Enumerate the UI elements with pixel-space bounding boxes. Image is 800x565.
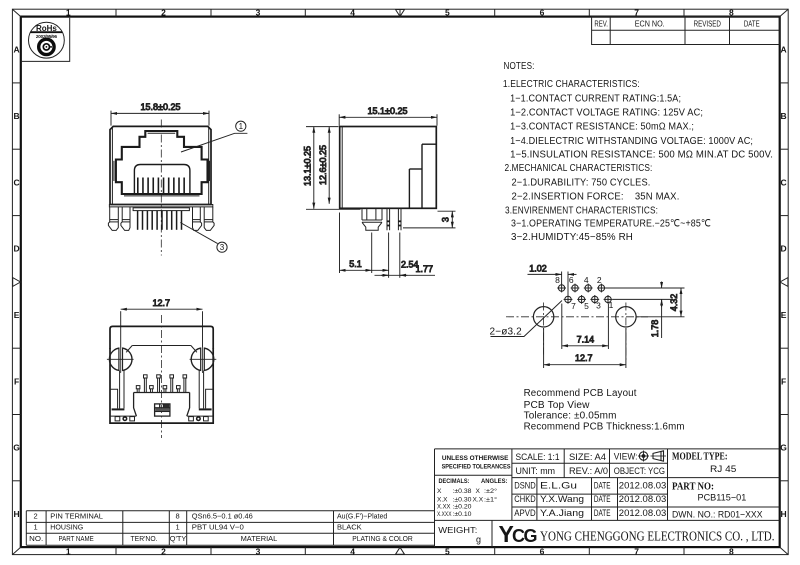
svg-text:2−2.INSERTION FORCE: 35N: 2−2.INSERTION FORCE: 35N MAX. <box>512 191 680 202</box>
svg-text:WEIGHT:: WEIGHT: <box>438 525 477 535</box>
svg-text:PBT UL94 V−0: PBT UL94 V−0 <box>192 523 244 532</box>
svg-text:1−3.CONTACT RESISTANCE: 50mΩ: 1−3.CONTACT RESISTANCE: 50mΩ MAX.; <box>510 122 694 133</box>
svg-text:2: 2 <box>597 275 602 285</box>
svg-text::±2°: :±2° <box>484 487 497 495</box>
parts table header <box>29 534 413 543</box>
svg-text:1: 1 <box>609 300 614 310</box>
svg-text:ECN NO.: ECN NO. <box>635 19 665 28</box>
svg-text:4: 4 <box>350 546 355 556</box>
front view left outer shield leg <box>108 207 118 231</box>
svg-text:Au(G.F')−Plated: Au(G.F')−Plated <box>337 512 387 521</box>
svg-text:X.X: X.X <box>473 497 484 504</box>
svg-text:YONG CHENGGONG ELECTRONICS CO.: YONG CHENGGONG ELECTRONICS CO. , LTD. <box>540 529 775 544</box>
svg-text::±0.20: :±0.20 <box>453 504 472 511</box>
svg-text:7: 7 <box>634 546 639 556</box>
svg-text:3: 3 <box>441 217 451 222</box>
side view body <box>340 127 437 209</box>
svg-text:7: 7 <box>571 301 576 311</box>
svg-text:HOUSING: HOUSING <box>50 523 83 532</box>
side view dimension 15.1±0.25 <box>339 106 437 126</box>
svg-text:12.7: 12.7 <box>575 353 593 363</box>
side view solder pin 2 <box>398 208 401 230</box>
bottom view left mounting post <box>109 347 132 371</box>
svg-text:3−2.HUMIDTY:45−85% RH: 3−2.HUMIDTY:45−85% RH <box>511 232 633 243</box>
svg-text:E.L.Gu: E.L.Gu <box>540 481 577 492</box>
svg-text::±1°: :±1° <box>484 496 497 504</box>
svg-text:4.32: 4.32 <box>669 294 679 312</box>
pcb layout dimension 12.7 <box>544 328 626 368</box>
svg-text::±0.38: :±0.38 <box>453 488 472 495</box>
svg-text:2.MECHANICAL CHARACTERISTICS:: 2.MECHANICAL CHARACTERISTICS: <box>505 163 653 174</box>
pcb layout pin numbers <box>555 275 614 311</box>
title block row2 text <box>516 466 666 477</box>
svg-text:DATE: DATE <box>594 494 611 505</box>
svg-text:X.XXX: X.XXX <box>437 511 452 518</box>
svg-text:2012.08.03: 2012.08.03 <box>619 481 667 492</box>
svg-text::±0.10: :±0.10 <box>453 511 472 518</box>
svg-text:4: 4 <box>350 8 355 18</box>
front view contact tongue insert <box>134 165 190 195</box>
svg-text:DATE: DATE <box>594 481 611 492</box>
pcb layout pin holes top row <box>557 284 606 293</box>
zone letters left <box>13 45 20 519</box>
svg-text:E: E <box>781 310 787 320</box>
pcb layout horizontal centerline <box>506 316 648 318</box>
bottom view left leg strip <box>110 371 136 417</box>
zone tick marks right band <box>780 83 789 481</box>
svg-text:G: G <box>780 443 787 453</box>
svg-text:F: F <box>781 376 786 386</box>
svg-text:5: 5 <box>445 546 450 556</box>
svg-text:7.14: 7.14 <box>577 335 595 345</box>
svg-text:DATE: DATE <box>744 19 760 28</box>
front view right inner shield leg <box>193 207 202 231</box>
bottom view pin row tall <box>144 375 187 393</box>
svg-text:A: A <box>14 45 20 55</box>
svg-text:C: C <box>14 177 20 187</box>
svg-text:ANGLES:: ANGLES: <box>481 478 508 485</box>
svg-text:NOTES:: NOTES: <box>504 61 535 72</box>
svg-text:1: 1 <box>66 546 71 556</box>
front view contact comb teeth <box>138 178 184 194</box>
svg-text:6: 6 <box>540 8 545 18</box>
balloon 3 <box>180 223 227 253</box>
svg-text:3: 3 <box>596 300 601 310</box>
title block sign rows <box>514 481 666 519</box>
svg-text:2012.08.03: 2012.08.03 <box>619 508 667 519</box>
front view shield body <box>109 126 212 206</box>
svg-text:13.1±0.25: 13.1±0.25 <box>303 146 313 186</box>
svg-text:15.8±0.25: 15.8±0.25 <box>141 102 181 112</box>
svg-text:DSND: DSND <box>514 481 536 492</box>
title block model cells <box>672 451 763 520</box>
svg-text:Q'TY: Q'TY <box>170 534 187 543</box>
svg-text:2: 2 <box>161 8 166 18</box>
svg-text:A: A <box>781 45 787 55</box>
svg-text:PLATING & COLOR: PLATING & COLOR <box>352 534 413 543</box>
svg-text:B: B <box>14 111 20 121</box>
side view dimension 1.77 <box>375 233 436 278</box>
svg-text:SCALE: 1:1: SCALE: 1:1 <box>516 452 560 463</box>
svg-text:X.XX: X.XX <box>437 504 451 511</box>
svg-text:1−4.DIELECTRIC WITHSTANDING: 1−4.DIELECTRIC WITHSTANDING VOLTAGE: 100… <box>510 136 753 147</box>
svg-text:APVD: APVD <box>514 508 536 519</box>
svg-text:8: 8 <box>176 512 180 521</box>
svg-text:15.1±0.25: 15.1±0.25 <box>368 106 408 116</box>
svg-text:G: G <box>13 443 20 453</box>
zone tick marks top band <box>116 9 684 16</box>
YCG logo <box>499 521 537 547</box>
pcb layout dimension 4.32 <box>605 288 685 317</box>
bottom view right pads <box>189 416 209 421</box>
svg-text:5.1: 5.1 <box>349 259 362 269</box>
svg-text:5: 5 <box>445 8 450 18</box>
svg-text:PART NAME: PART NAME <box>59 534 94 543</box>
bottom view centerline <box>161 315 163 438</box>
svg-text:PCB115−01: PCB115−01 <box>698 493 747 504</box>
svg-text:Y.X.Wang: Y.X.Wang <box>540 494 584 505</box>
parts table row 2 <box>34 512 388 521</box>
tolerance box text <box>439 455 512 485</box>
balloon 1 <box>181 121 247 152</box>
front view contact pins <box>138 211 182 230</box>
title block grid <box>435 449 780 547</box>
svg-text:3−1.OPERATING TEMPERATURE.−25: 3−1.OPERATING TEMPERATURE.−25℃~+85℃ <box>511 219 711 230</box>
svg-text:D: D <box>781 244 787 254</box>
side view rear step features <box>409 144 436 208</box>
notes text block <box>503 61 773 243</box>
bottom view latch window <box>155 404 170 416</box>
pcb layout pin holes bottom row <box>564 295 613 304</box>
revision table <box>592 17 780 45</box>
svg-text:3: 3 <box>256 8 261 18</box>
svg-text:DWN. NO.: RD01−XXX: DWN. NO.: RD01−XXX <box>672 510 763 521</box>
svg-text:OBJECT: YCG: OBJECT: YCG <box>614 466 665 477</box>
bottom view dimension 12.7 <box>121 298 203 347</box>
svg-text:1.02: 1.02 <box>529 264 547 274</box>
front view dimension 15.8±0.25 <box>111 102 209 125</box>
svg-text:8: 8 <box>729 546 734 556</box>
svg-text:D: D <box>14 244 20 254</box>
side view dimension 12.6±0.25 <box>306 127 361 210</box>
svg-text:UNIT: mm: UNIT: mm <box>516 466 556 477</box>
svg-text:X: X <box>437 488 442 495</box>
zone tick marks bottom band <box>116 547 684 555</box>
pcb layout note text <box>524 388 685 433</box>
side view dimension 5.1 <box>340 213 372 274</box>
bottom view body outline <box>110 326 213 423</box>
svg-text:1: 1 <box>34 523 38 532</box>
svg-text:VIEW:: VIEW: <box>614 451 638 462</box>
svg-text:SPECIFIED TOLERANCES: SPECIFIED TOLERANCES <box>442 464 512 471</box>
svg-text:REV.: REV. <box>594 19 608 28</box>
svg-text:2−1.DURABILITY: 750 CYCLES.: 2−1.DURABILITY: 750 CYCLES. <box>512 178 651 189</box>
svg-text:8: 8 <box>555 275 560 285</box>
svg-text:2: 2 <box>161 546 166 556</box>
pcb layout mounting hole right <box>616 303 636 361</box>
svg-text:2−ø3.2: 2−ø3.2 <box>490 326 523 337</box>
svg-text::±0.30: :±0.30 <box>453 497 472 504</box>
RoHS emblem box <box>21 18 70 62</box>
zone tick marks left band <box>12 83 20 481</box>
bottom view right leg strip <box>187 371 213 417</box>
svg-text:RJ 45: RJ 45 <box>710 464 736 475</box>
svg-text:12.7: 12.7 <box>153 298 171 308</box>
svg-text:6: 6 <box>540 546 545 556</box>
svg-text:6: 6 <box>569 275 574 285</box>
pcb layout mounting hole left <box>533 303 553 355</box>
pcb layout label 2-ø3.2 <box>490 301 563 338</box>
bottom view center block <box>134 393 190 417</box>
company name <box>540 529 775 544</box>
svg-text:1: 1 <box>66 8 71 18</box>
svg-text:E: E <box>14 310 20 320</box>
svg-text:B: B <box>781 111 787 121</box>
bottom view right mounting post <box>191 347 214 371</box>
svg-text:1−2.CONTACT VOLTAGE RATING:: 1−2.CONTACT VOLTAGE RATING: 125V AC; <box>510 108 703 119</box>
svg-text:1.78: 1.78 <box>650 320 660 338</box>
zone numbers top <box>66 8 734 18</box>
svg-text:Recommend PCB Thickness:1.6m: Recommend PCB Thickness:1.6mm <box>524 422 685 433</box>
bottom view inner shelf line <box>126 346 197 353</box>
svg-text:g: g <box>476 534 481 544</box>
svg-text:REVISED: REVISED <box>694 19 721 28</box>
parts table grid <box>26 511 434 545</box>
svg-text:C: C <box>781 177 787 187</box>
svg-text:BLACK: BLACK <box>337 523 362 532</box>
svg-text:X.X: X.X <box>437 497 448 504</box>
svg-text:3: 3 <box>256 546 261 556</box>
svg-text:H: H <box>781 509 787 519</box>
svg-text:1: 1 <box>239 122 244 131</box>
svg-text:H: H <box>14 509 20 519</box>
svg-text:PART NO:: PART NO: <box>672 481 714 492</box>
side view dimension 13.1±0.25 <box>303 127 339 209</box>
svg-text:Recommend PCB Layout: Recommend PCB Layout <box>524 388 637 399</box>
svg-text:Y.A.Jiang: Y.A.Jiang <box>540 508 584 519</box>
svg-text:MATERIAL: MATERIAL <box>241 534 278 543</box>
svg-text:3.ENVIRENMENT CHARACTERISTICS: 3.ENVIRENMENT CHARACTERISTICS: <box>505 206 658 217</box>
side view solder pin 1 <box>387 208 390 230</box>
svg-text:2012.08.03: 2012.08.03 <box>619 494 667 505</box>
svg-text:12.6±0.25: 12.6±0.25 <box>318 145 328 185</box>
front view centerline <box>160 120 162 256</box>
svg-text:PIN TERMINAL: PIN TERMINAL <box>50 512 103 521</box>
svg-text:1−1.CONTACT CURRENT RATING:1: 1−1.CONTACT CURRENT RATING:1.5A; <box>510 93 681 104</box>
first angle projection symbol <box>638 451 649 462</box>
svg-text:DATE: DATE <box>594 508 611 519</box>
svg-text:4: 4 <box>584 275 589 285</box>
svg-text:2: 2 <box>34 512 38 521</box>
svg-text:3: 3 <box>220 243 225 252</box>
svg-text:CG: CG <box>512 526 536 546</box>
side view dimension 2.54 <box>372 233 419 278</box>
bottom view pin row short <box>136 386 180 393</box>
svg-text:Tolerance: ±0.05mm: Tolerance: ±0.05mm <box>524 411 617 422</box>
svg-text:CHKD: CHKD <box>514 494 536 505</box>
front view pin comb bar <box>133 208 189 211</box>
bottom view post centermarks <box>107 347 216 373</box>
svg-text:1−5.INSULATION RESISTANCE: 5: 1−5.INSULATION RESISTANCE: 500 MΩ MIN.AT… <box>510 150 773 161</box>
front view RJ45 opening profile <box>114 131 210 196</box>
zone letters right <box>780 45 787 519</box>
bottom view left pads <box>115 416 134 421</box>
front view left inner shield leg <box>121 207 130 231</box>
pcb layout dimension 7.14 <box>562 304 609 350</box>
svg-text:F: F <box>14 376 19 386</box>
svg-text:UNLESS OTHERWISE: UNLESS OTHERWISE <box>442 455 509 462</box>
svg-text:X: X <box>476 488 481 495</box>
side view dimension 3 <box>403 211 456 228</box>
svg-text:DECIMALS:: DECIMALS: <box>439 478 470 485</box>
svg-text:TER'NO.: TER'NO. <box>131 534 158 543</box>
svg-text:SIZE: A4: SIZE: A4 <box>569 452 606 463</box>
projection cone symbol <box>651 451 667 461</box>
svg-text:QSn6.5−0.1 ø0.46: QSn6.5−0.1 ø0.46 <box>192 512 253 521</box>
pcb layout dimension 1.78 <box>613 282 672 339</box>
weight cell <box>438 525 481 545</box>
zone numbers bottom <box>66 546 734 556</box>
svg-text:1.77: 1.77 <box>416 264 434 274</box>
title block row1 text <box>516 451 638 463</box>
side view snap-in post <box>362 208 382 230</box>
svg-text:1.ELECTRIC CHARACTERISTICS:: 1.ELECTRIC CHARACTERISTICS: <box>503 79 640 90</box>
svg-text:1: 1 <box>176 523 180 532</box>
svg-text:REV.: A/0: REV.: A/0 <box>569 466 608 477</box>
pcb layout dimension 1.02 <box>528 264 577 295</box>
svg-text:MODEL TYPE:: MODEL TYPE: <box>672 451 728 462</box>
svg-text:NO.: NO. <box>29 534 43 543</box>
svg-text:5: 5 <box>584 301 589 311</box>
svg-text:PCB Top View: PCB Top View <box>524 400 591 411</box>
front view right outer shield leg <box>204 207 214 231</box>
parts table row 1 <box>34 523 362 532</box>
